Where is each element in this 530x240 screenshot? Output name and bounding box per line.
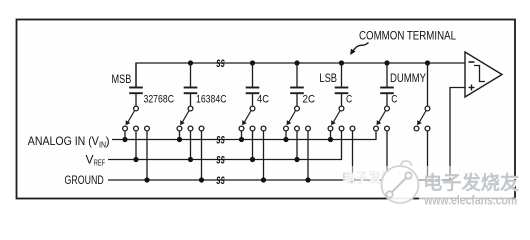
wire: S5 (LSB) right contact to GROUND — [352, 131, 354, 180]
wire: S2 middle contact to VREF — [190, 131, 192, 160]
svg-text:ss: ss — [216, 55, 225, 70]
op-amp comparator U1 — [465, 52, 502, 97]
wire: S4 middle contact to VREF — [296, 131, 298, 160]
svg-text:GROUND: GROUND — [65, 173, 104, 187]
svg-text:V: V — [86, 152, 94, 166]
node: GROUND junction S5 (LSB) — [350, 177, 355, 182]
wire: S7 right contact to GROUND — [427, 131, 429, 180]
net label: VREF — [86, 152, 106, 167]
svg-text:C: C — [346, 94, 352, 106]
capacitor C3 4C — [246, 63, 260, 106]
switch S6 (DUMMY) — [374, 106, 390, 131]
svg-text:www.elecfans.com: www.elecfans.com — [423, 194, 517, 208]
wire: VREF bus — [108, 131, 342, 160]
switch S7 — [414, 106, 430, 131]
node: GROUND junction S1 (MSB) — [144, 177, 149, 182]
svg-text:C: C — [391, 94, 397, 106]
svg-text:2C: 2C — [303, 94, 316, 106]
node: top bus / C3 — [250, 60, 255, 65]
svg-text:32768C: 32768C — [144, 94, 175, 106]
svg-text:REF: REF — [94, 157, 106, 167]
capacitor C6 C (DUMMY) — [380, 63, 394, 106]
wire: GROUND bus — [108, 88, 465, 181]
switch S2 — [177, 106, 204, 131]
svg-text:ANALOG IN (V: ANALOG IN (V — [28, 134, 99, 148]
net label: ANALOG IN (VIN) — [28, 134, 110, 149]
wire: S3 left contact to ANALOG IN — [241, 131, 243, 140]
svg-text:COMMON TERMINAL: COMMON TERMINAL — [359, 31, 457, 43]
wire: S4 left contact to ANALOG IN — [285, 131, 287, 140]
capacitor C5 C (LSB) — [335, 63, 349, 106]
svg-text:): ) — [106, 134, 110, 148]
capacitor C2 16384C — [184, 63, 198, 106]
node: top bus / C2 — [188, 60, 193, 65]
svg-text:ss: ss — [216, 172, 225, 187]
node: ANALOG IN junction S4 — [283, 137, 288, 142]
svg-text:MSB: MSB — [112, 72, 132, 86]
watermark (site logo and text) — [342, 161, 521, 209]
capacitor C4 2C — [290, 63, 304, 106]
node: ANALOG IN junction S1 (MSB) — [122, 137, 127, 142]
node: top bus / S7 — [425, 60, 430, 65]
node: ANALOG IN junction S3 — [239, 137, 244, 142]
wire: S5 (LSB) left contact to ANALOG IN — [330, 131, 332, 140]
svg-text:ss: ss — [216, 131, 225, 146]
switch S5 (LSB) — [328, 106, 355, 131]
svg-text:ss: ss — [216, 151, 225, 166]
switch S3 — [239, 106, 266, 131]
capacitor C1 32768C — [129, 63, 143, 106]
node: top bus / C6 — [384, 60, 389, 65]
svg-text:LSB: LSB — [319, 71, 337, 85]
switch S4 — [284, 106, 311, 131]
wire: S1 (MSB) left contact to ANALOG IN — [124, 131, 126, 140]
wire: S3 right contact to GROUND — [263, 131, 265, 180]
switch S1 (MSB) — [123, 106, 150, 131]
wire: S6 right contact to GROUND — [386, 131, 388, 180]
node: VREF junction S1 (MSB) — [133, 157, 138, 162]
node: VREF junction S3 — [250, 157, 255, 162]
wire: common terminal top bus — [136, 63, 465, 88]
wire: S4 right contact to GROUND — [307, 131, 309, 180]
node: GROUND junction S6 — [384, 177, 389, 182]
svg-text:电子发烧友: 电子发烧友 — [423, 171, 519, 194]
node: GROUND junction S7 — [425, 177, 430, 182]
node: VREF junction S2 — [188, 157, 193, 162]
node: VREF junction S4 — [294, 157, 299, 162]
node: GROUND junction S4 — [305, 177, 310, 182]
wire: S2 left contact to ANALOG IN — [179, 131, 181, 140]
wire: S2 right contact to GROUND — [201, 131, 203, 180]
svg-text:16384C: 16384C — [196, 94, 227, 106]
wire: S3 middle contact to VREF — [252, 131, 254, 160]
node: top bus / C5 — [339, 60, 344, 65]
node: top bus / C4 — [294, 60, 299, 65]
arrow: common terminal pointer — [353, 43, 369, 52]
wire: S1 (MSB) middle contact to VREF — [135, 131, 137, 160]
wire: ANALOG IN bus — [112, 131, 376, 140]
svg-text:4C: 4C — [257, 94, 269, 106]
wire: top bus to S7 pole — [427, 63, 429, 106]
node: ANALOG IN junction S2 — [177, 137, 182, 142]
label: COMMON TERMINAL — [359, 31, 457, 43]
node: GROUND junction S3 — [261, 177, 266, 182]
wire: S1 (MSB) right contact to GROUND — [146, 131, 148, 180]
node: ANALOG IN junction S5 (LSB) — [328, 137, 333, 142]
node: GROUND junction S2 — [199, 177, 204, 182]
svg-text:DUMMY: DUMMY — [390, 71, 426, 85]
